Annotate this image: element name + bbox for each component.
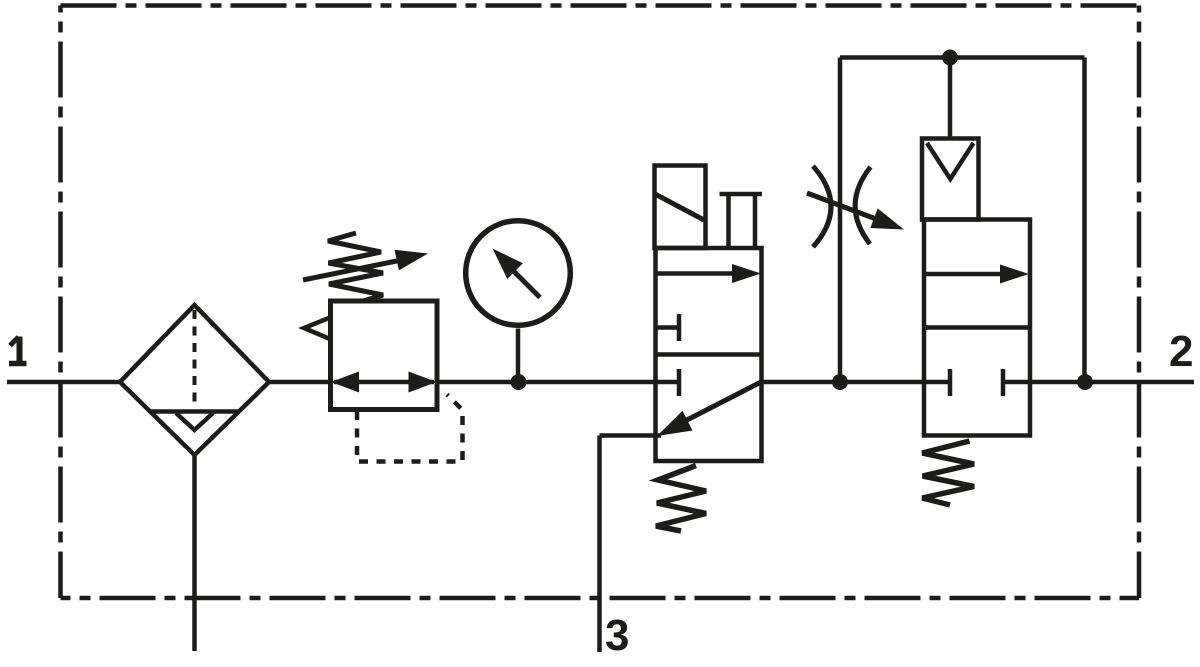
port 1 label bbox=[9, 337, 27, 365]
V2 upper chamber flow arrow bbox=[925, 265, 1029, 284]
V1 return spring bbox=[656, 466, 706, 532]
throttle valve (adjustable restrictor) bbox=[813, 166, 871, 247]
regulator adjustment arrow bbox=[303, 250, 428, 280]
valve V2 body (2/2-way soft start) bbox=[924, 220, 1030, 436]
V2 output branch riser wire bbox=[1082, 58, 1087, 383]
pilot supply top wire bbox=[840, 55, 1085, 60]
valve V2 pilot head bbox=[922, 139, 979, 220]
enclosure border (dash-dot assembly frame) bbox=[61, 6, 1140, 599]
gauge needle bbox=[493, 249, 541, 298]
pilot drop wire bbox=[948, 58, 953, 141]
throttle branch riser wire bbox=[838, 58, 843, 383]
V1 upper chamber blocked port bbox=[656, 314, 679, 341]
regulator pilot feedback line (dashed) bbox=[357, 395, 463, 462]
wire: V1 exhaust to port 3 bbox=[600, 433, 662, 438]
V1 lower chamber blocked port bbox=[656, 369, 679, 396]
regulator flow path arrows bbox=[331, 372, 437, 393]
V1 upper chamber flow arrow bbox=[656, 264, 761, 283]
svg-text:2: 2 bbox=[1169, 327, 1193, 376]
wire: port 1 to filter bbox=[7, 380, 122, 385]
manual override of V1 bbox=[720, 194, 763, 248]
V1 exhaust diagonal arrow bbox=[657, 382, 761, 436]
junction dot gauge/main line bbox=[511, 374, 527, 390]
V2 lower chamber blocked port left bbox=[925, 369, 950, 396]
filter / water separator F1 (diamond) bbox=[120, 305, 269, 455]
wire: V2 to port 2 bbox=[1030, 380, 1194, 385]
junction dot V2 output bbox=[1077, 374, 1093, 390]
gauge stem bbox=[516, 329, 521, 383]
wire: regulator to 3/2 valve bbox=[437, 380, 656, 385]
throttle adjustment arrow bbox=[807, 193, 904, 230]
junction dot throttle branch bbox=[832, 374, 848, 390]
pressure gauge G1 bbox=[466, 221, 571, 326]
regulator relieving vent triangle bbox=[304, 318, 330, 340]
svg-text:3: 3 bbox=[605, 611, 629, 660]
regulator adjustment spring bbox=[328, 233, 383, 301]
wire: filter to regulator bbox=[269, 380, 331, 385]
filter condensate drain line bbox=[192, 455, 197, 651]
junction dot pilot line bbox=[942, 50, 958, 66]
solenoid actuator of V1 bbox=[655, 166, 706, 249]
pressure regulator R1 (box) bbox=[331, 301, 438, 410]
valve V1 body (3/2-way on-off valve) bbox=[656, 248, 762, 461]
wire: V1 to throttle branch and valve V2 bbox=[762, 380, 926, 385]
V2 return spring bbox=[922, 441, 974, 505]
V2 lower chamber blocked port right bbox=[1003, 369, 1029, 396]
